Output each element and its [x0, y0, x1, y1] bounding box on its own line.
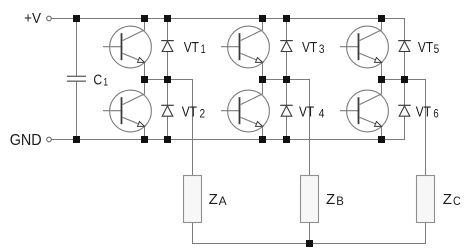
svg-text:Z: Z [326, 191, 335, 208]
svg-text:C: C [93, 71, 102, 88]
svg-text:B: B [336, 194, 344, 208]
svg-text:Z: Z [443, 191, 452, 208]
svg-text:VT: VT [182, 104, 197, 121]
svg-text:VT: VT [416, 104, 431, 121]
svg-text:4: 4 [319, 107, 325, 121]
svg-text:1: 1 [201, 42, 206, 56]
svg-text:2: 2 [200, 107, 206, 121]
svg-text:GND: GND [10, 132, 42, 149]
svg-text:VT: VT [302, 39, 317, 56]
svg-text:Z: Z [209, 191, 218, 208]
svg-text:VT: VT [299, 104, 314, 121]
svg-text:3: 3 [319, 42, 325, 56]
svg-text:6: 6 [433, 107, 439, 121]
svg-text:1: 1 [103, 76, 108, 88]
svg-text:+V: +V [24, 10, 41, 27]
svg-text:VT: VT [418, 39, 433, 56]
svg-text:VT: VT [184, 39, 199, 56]
svg-text:A: A [219, 194, 227, 208]
svg-text:C: C [453, 194, 461, 208]
svg-text:5: 5 [434, 42, 440, 56]
